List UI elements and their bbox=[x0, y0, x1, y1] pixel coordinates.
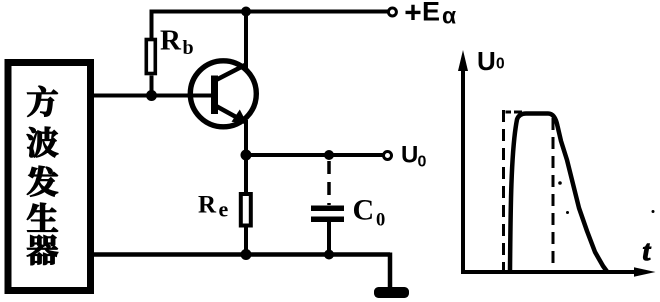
svg-text:0: 0 bbox=[418, 154, 427, 171]
svg-text:b: b bbox=[183, 37, 194, 59]
svg-text:R: R bbox=[160, 25, 182, 57]
svg-text:e: e bbox=[219, 197, 229, 222]
svg-text:0: 0 bbox=[496, 56, 505, 73]
svg-text:C: C bbox=[353, 193, 375, 226]
svg-text:0: 0 bbox=[376, 210, 385, 230]
svg-text:U: U bbox=[401, 142, 418, 169]
svg-text:E: E bbox=[422, 0, 440, 27]
svg-text:α: α bbox=[442, 3, 456, 29]
svg-text:t: t bbox=[643, 236, 652, 267]
svg-text:U: U bbox=[477, 46, 496, 76]
svg-text:R: R bbox=[198, 191, 217, 218]
